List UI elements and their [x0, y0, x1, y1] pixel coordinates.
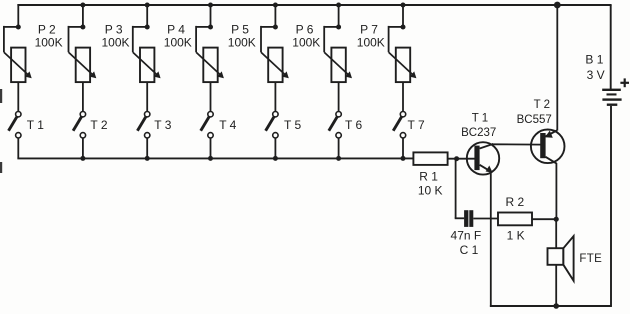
- svg-text:P 5: P 5: [231, 23, 249, 37]
- node: bus junction T4: [208, 156, 213, 161]
- potentiometer P1 100K: [4, 4, 32, 112]
- switch T2: [73, 112, 86, 159]
- potentiometer P5 100K: [261, 4, 289, 112]
- svg-text:T 1: T 1: [472, 113, 488, 125]
- svg-text:P 3: P 3: [105, 23, 123, 37]
- svg-text:100K: 100K: [35, 36, 63, 50]
- wire: T1 emitter to bottom rail: [490, 172, 492, 307]
- svg-text:FTE: FTE: [579, 253, 602, 265]
- node: bus junction T2: [80, 156, 85, 161]
- svg-text:R 1: R 1: [419, 170, 438, 184]
- svg-text:B 1: B 1: [585, 52, 603, 66]
- wire: R2 to junction: [532, 218, 556, 220]
- node: bus junction T5: [273, 156, 278, 161]
- wire: T2 emitter up to rail: [556, 4, 558, 131]
- resistor R1: [413, 152, 447, 165]
- svg-text:P 4: P 4: [167, 23, 185, 37]
- resistor R2: [498, 213, 532, 226]
- svg-text:T 2: T 2: [534, 99, 550, 111]
- switch T3: [137, 112, 150, 159]
- svg-text:100K: 100K: [101, 36, 129, 50]
- svg-text:C 1: C 1: [460, 243, 479, 257]
- node: bus junction T6: [336, 156, 341, 161]
- wire: C1 to R2: [473, 218, 498, 220]
- potentiometer P2 100K: [69, 4, 97, 112]
- battery plus sign: [620, 78, 629, 87]
- svg-text:T 4: T 4: [219, 118, 236, 132]
- svg-text:100K: 100K: [292, 36, 320, 50]
- svg-text:T 3: T 3: [154, 118, 171, 132]
- node: rail junction pot P5: [273, 3, 278, 8]
- node: bus junction T7: [401, 156, 406, 161]
- transistor T2 BC557 (PNP): [531, 130, 565, 164]
- node: rail junction T2 emitter: [554, 2, 561, 9]
- svg-text:100K: 100K: [164, 36, 192, 50]
- wire: T2 collector down to R2 junction: [555, 163, 557, 221]
- svg-text:P 2: P 2: [38, 23, 56, 37]
- svg-text:P 6: P 6: [296, 23, 314, 37]
- wire: speaker to bottom rail: [555, 265, 557, 307]
- node: R2 / T2 collector / speaker junction: [554, 217, 559, 222]
- svg-text:R 2: R 2: [505, 195, 524, 209]
- node: bus junction T3: [145, 156, 150, 161]
- node: rail junction pot P3: [145, 3, 150, 8]
- wire: top supply rail: [17, 4, 611, 6]
- scan artifact left edge (decorative): [0, 89, 2, 103]
- battery B1 3V: [602, 89, 621, 106]
- svg-text:P 7: P 7: [360, 23, 378, 37]
- wire: junction down to speaker: [555, 219, 557, 249]
- node: T1 base / C1 junction: [454, 156, 459, 161]
- capacitor C1 47nF: [464, 210, 468, 227]
- svg-text:100K: 100K: [357, 36, 385, 50]
- svg-text:T 2: T 2: [90, 118, 107, 132]
- svg-text:T 1: T 1: [27, 118, 44, 132]
- svg-text:1 K: 1 K: [507, 229, 525, 243]
- switch T5: [266, 112, 278, 159]
- svg-text:T 5: T 5: [284, 118, 301, 132]
- switch T4: [201, 112, 214, 159]
- svg-text:3 V: 3 V: [587, 68, 605, 82]
- potentiometer P6 100K: [324, 4, 352, 112]
- speaker FTE: [548, 236, 574, 281]
- node: rail junction pot P7: [401, 3, 406, 8]
- node: rail junction pot P2: [80, 3, 85, 8]
- potentiometer P3 100K: [133, 4, 161, 112]
- node: speaker / bottom rail junction: [553, 303, 559, 309]
- svg-text:47n F: 47n F: [451, 229, 482, 243]
- switch T7: [393, 112, 405, 159]
- wire: battery - down to bottom rail: [610, 106, 612, 307]
- potentiometer P7 100K: [389, 4, 417, 112]
- svg-text:BC557: BC557: [517, 114, 552, 126]
- transistor T1 BC237 (NPN): [467, 142, 499, 174]
- wire: T1 collector to T2 base: [493, 143, 543, 145]
- node: rail junction pot P4: [208, 3, 213, 8]
- node: rail junction pot P6: [336, 3, 341, 8]
- wire: switch output bus: [17, 157, 413, 159]
- wire: R1 to T1 base: [448, 158, 475, 160]
- svg-text:BC237: BC237: [461, 127, 496, 139]
- switch T6: [329, 112, 342, 159]
- wire: right rail drop to battery +: [610, 5, 612, 90]
- wire: bottom rail: [490, 305, 612, 307]
- switch T1: [9, 112, 22, 159]
- potentiometer P4 100K: [196, 4, 224, 112]
- svg-text:T 7: T 7: [408, 118, 425, 132]
- svg-text:100K: 100K: [228, 36, 256, 50]
- svg-text:T 6: T 6: [345, 118, 362, 132]
- svg-text:10 K: 10 K: [418, 184, 443, 198]
- wire: junction down to C1: [455, 159, 457, 219]
